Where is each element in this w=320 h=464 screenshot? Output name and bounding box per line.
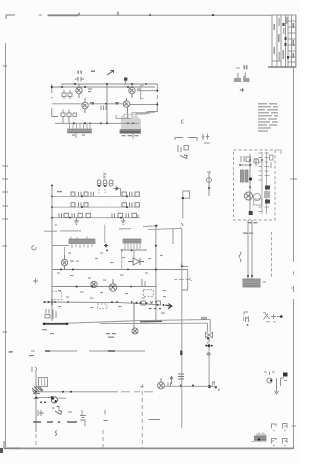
transistor Q6 xyxy=(91,281,97,287)
junction dots under blocks xyxy=(106,245,157,252)
bottom border wire xyxy=(4,447,293,449)
cluster B : middle rows xyxy=(51,173,140,244)
top parts xyxy=(240,156,259,166)
glyphs above junction xyxy=(212,381,220,391)
small box xyxy=(254,199,262,205)
small parts right of Q7 xyxy=(142,279,153,296)
cross mark xyxy=(34,398,39,400)
small circuit F2 xyxy=(264,372,287,395)
connector block J1 hatched xyxy=(68,123,92,133)
connector block J2 hatched xyxy=(120,130,141,134)
relay branch right-middle xyxy=(173,229,192,290)
wire left bus xyxy=(51,185,53,232)
component on wire xyxy=(178,374,184,379)
mini cluster C2 switch xyxy=(263,313,283,322)
wire motor to ground branch xyxy=(165,385,217,387)
wire bottom rail xyxy=(55,122,139,124)
connector block J4 hatched xyxy=(121,239,147,250)
capacitor C1 xyxy=(75,71,84,82)
junction dots on rails xyxy=(61,83,158,105)
title block U-TB xyxy=(268,15,296,67)
wire stub down from dash line xyxy=(172,229,174,244)
label above trio xyxy=(104,173,107,180)
notes text block N1 xyxy=(258,103,278,131)
terminal marks 2x2 xyxy=(272,424,288,446)
labels under box xyxy=(243,222,258,234)
ground GND2 xyxy=(121,218,125,224)
tiny labels xyxy=(88,71,140,104)
bottom-right corner mark xyxy=(293,445,295,449)
marks right of motor xyxy=(168,383,171,387)
wire to block J3 xyxy=(52,245,69,247)
junction node dark xyxy=(208,385,211,388)
s mark xyxy=(55,431,57,436)
extra parts top right of box xyxy=(270,155,273,168)
small marks x205 xyxy=(202,134,211,144)
bottom left cluster xyxy=(32,367,160,449)
wire left bus continue xyxy=(51,232,53,321)
cluster A : top amplifier circuit xyxy=(51,71,159,139)
wire trio to corner arrow xyxy=(113,186,121,196)
inductor trio L1 L2 L3 xyxy=(97,180,113,187)
wire heavy segment xyxy=(43,323,68,325)
wire bottom rail lower xyxy=(100,322,208,324)
wire pair down xyxy=(248,220,252,279)
transistor Q3 xyxy=(129,84,135,98)
small margin marks xyxy=(9,245,38,351)
motor M1 xyxy=(158,378,165,389)
wire long horizontal y391 xyxy=(36,391,118,393)
transistor Q9 xyxy=(253,193,260,200)
dashed box mid xyxy=(98,304,108,309)
mini cluster C1 xyxy=(244,312,249,326)
tick on bus xyxy=(55,224,58,226)
connector symbol X1 (top middle-right pair) xyxy=(234,65,250,82)
transistor Q5 xyxy=(61,255,74,270)
wire mid rail xyxy=(52,103,123,105)
resistor pair vertical xyxy=(241,170,249,182)
wire stub from J4 xyxy=(121,250,123,270)
IC dashed box region xyxy=(234,150,282,277)
bottom right group xyxy=(252,372,297,446)
dashed enclosure xyxy=(234,150,276,220)
node cross left xyxy=(51,299,53,305)
dark mark row xyxy=(205,344,212,347)
bracket mark xyxy=(57,407,60,410)
tick on right border xyxy=(291,178,298,180)
dashed box left xyxy=(52,291,62,299)
label 10 xyxy=(57,191,62,192)
junction dots rows xyxy=(51,195,128,218)
bottom-left corner mark xyxy=(4,441,20,448)
wire rail y302 xyxy=(44,302,156,305)
label mark xyxy=(32,367,37,373)
wire row line 1 xyxy=(52,195,140,197)
wire below title block xyxy=(295,15,297,67)
transistor Q4 xyxy=(123,98,129,118)
wire mid vertical xyxy=(106,84,108,123)
text marks right of lamp xyxy=(106,333,116,338)
wire mid horizontal dash-dot xyxy=(44,226,156,231)
junction dots xyxy=(239,159,263,188)
resistor R6 bracket right xyxy=(141,85,147,113)
dashed vertical xyxy=(141,384,143,448)
label text xyxy=(42,329,54,334)
transformer T1 core xyxy=(39,378,48,387)
cluster C : central circuit xyxy=(42,226,210,338)
sub box above ribbon xyxy=(116,115,131,119)
tick marks on top border xyxy=(79,12,214,17)
castellation marks xyxy=(202,317,206,320)
varistor RU1 bowtie xyxy=(206,332,213,339)
pin ladder right column xyxy=(259,153,270,212)
capacitor C2 pair mid xyxy=(101,106,106,111)
transformer hatch blob xyxy=(32,386,43,394)
left border wire xyxy=(5,43,7,447)
potentiometer R20 xyxy=(51,396,58,403)
wire pair down xyxy=(208,320,211,333)
RC row 1 components xyxy=(71,192,139,197)
junction node cross xyxy=(104,244,108,248)
connector block J3 hatched xyxy=(69,237,95,249)
wire right box xyxy=(149,84,158,112)
dark blob bottom xyxy=(249,211,253,215)
hatched stamp block xyxy=(252,433,267,442)
bracket mark right of cluster A xyxy=(182,120,184,123)
sensor B1 xyxy=(207,172,212,197)
junction dots rail xyxy=(44,269,157,304)
bracket marks xyxy=(175,138,197,159)
wire row line 3 xyxy=(52,217,140,219)
dashed verticals to border xyxy=(35,434,37,448)
label specks cluster C xyxy=(57,253,166,309)
wire second stub line xyxy=(148,227,181,229)
wire y397.6 xyxy=(36,397,66,400)
wire drop mid xyxy=(104,225,106,243)
RC row 2 components xyxy=(71,202,139,207)
wire top rail 2 xyxy=(52,86,155,88)
top border wire xyxy=(39,14,43,16)
wire down to junction xyxy=(208,338,210,387)
wire bottom rail upper xyxy=(68,320,210,324)
junction dots bottom rail xyxy=(73,111,149,124)
squiggle marks xyxy=(239,252,241,262)
right border wire xyxy=(293,67,295,448)
mid-right small parts group xyxy=(175,134,211,197)
wire left vertical xyxy=(35,372,37,432)
title block text specks xyxy=(274,17,295,61)
internal verticals xyxy=(249,154,251,215)
wire stub from J3 xyxy=(64,247,66,255)
arrow mark xyxy=(170,377,173,385)
wire rail y286.5 xyxy=(52,286,157,288)
wire left vertical xyxy=(52,84,58,117)
transistor Q8 xyxy=(245,192,253,200)
RC row 3 components xyxy=(59,213,138,217)
resistor group R3 R4 R5 xyxy=(61,110,76,124)
small parts row y410-416 xyxy=(38,410,105,418)
long vertical wire xyxy=(181,228,183,428)
tick on right border low xyxy=(292,425,297,427)
parts above rail xyxy=(141,301,172,314)
dashed stubs below trio xyxy=(99,189,105,193)
label block dark square xyxy=(124,78,127,81)
component column left xyxy=(45,309,56,319)
transistor Q2 xyxy=(82,98,88,113)
dash-dot line y351 xyxy=(31,350,145,352)
small box on vertical xyxy=(183,191,190,198)
dashed stub below xyxy=(271,232,273,277)
label dots under J1 xyxy=(72,133,139,139)
ribbon wires W1 xyxy=(122,113,155,130)
fold tick marks on left border xyxy=(3,66,9,332)
transistor Q1 xyxy=(76,84,82,98)
top-left corner mark xyxy=(6,15,15,19)
transistor Q7 xyxy=(109,279,117,291)
connector block J5 hatched xyxy=(243,279,266,287)
dark pads xyxy=(265,186,270,190)
right branch down xyxy=(205,320,220,392)
wire top rail 1 xyxy=(61,83,157,85)
arrow note A1 xyxy=(240,89,244,93)
relay contact K1 xyxy=(182,270,188,291)
squiggle xyxy=(207,340,209,344)
resistor group R1 R2 xyxy=(62,90,72,99)
bottom middle cluster xyxy=(9,228,217,448)
wire stub off long vertical xyxy=(182,262,188,267)
wire row line 2 xyxy=(52,206,140,208)
diode D1 triangle xyxy=(128,250,144,265)
dark dash row y422 xyxy=(33,421,77,423)
ground GND1 xyxy=(74,218,78,224)
wire mid vertical xyxy=(155,226,157,321)
small label xyxy=(9,352,35,357)
gray diamond bead xyxy=(206,351,211,356)
arrow input mark xyxy=(107,71,114,76)
wire rail y269.5 xyxy=(52,269,188,271)
wires from IC box to connector xyxy=(239,220,266,287)
lamp H1 xyxy=(132,302,138,334)
